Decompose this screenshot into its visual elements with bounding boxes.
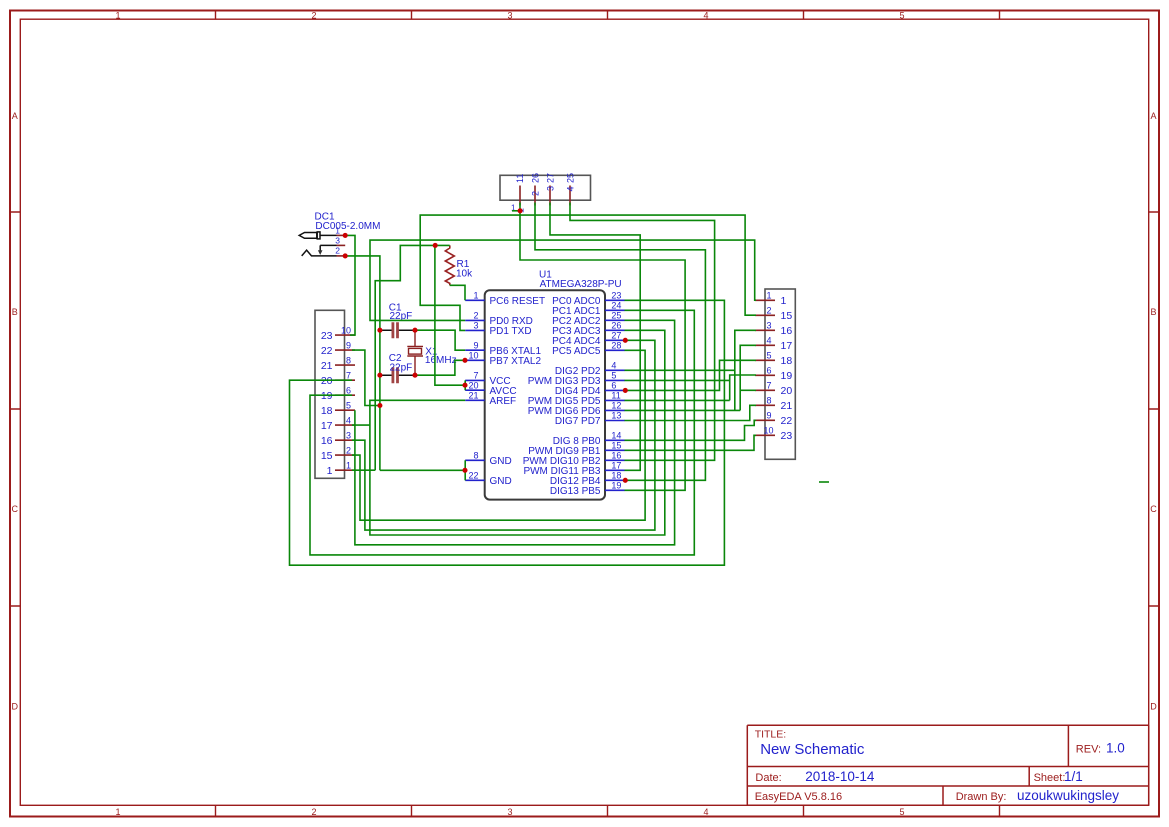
wire stray dash xyxy=(819,481,829,483)
svg-text:PC6 RESET: PC6 RESET xyxy=(490,296,546,307)
wire P2 pin9 to GND rail xyxy=(352,350,380,405)
connector P3 pin names xyxy=(781,295,793,442)
wire P3 pin7 stub xyxy=(740,389,756,391)
junction P1 pin1 xyxy=(518,208,523,213)
connector P2 pins 10..1 xyxy=(335,335,355,470)
capacitor C1 xyxy=(380,322,415,338)
svg-text:1: 1 xyxy=(473,291,478,301)
svg-text:3: 3 xyxy=(545,186,555,191)
svg-text:REV:: REV: xyxy=(1076,744,1101,756)
svg-text:3: 3 xyxy=(507,11,512,21)
svg-text:D: D xyxy=(12,702,19,712)
svg-text:22: 22 xyxy=(468,471,478,481)
svg-text:4: 4 xyxy=(703,807,708,817)
svg-text:1: 1 xyxy=(346,461,351,471)
svg-text:11: 11 xyxy=(515,174,525,183)
svg-text:3: 3 xyxy=(766,321,771,331)
wire RXD: U1 pin2 to P3 pin1 xyxy=(370,240,756,320)
U1 right pin numbers xyxy=(611,291,621,491)
svg-text:DIG7 PD7: DIG7 PD7 xyxy=(555,416,601,427)
svg-text:25: 25 xyxy=(565,173,575,183)
R1 labels xyxy=(456,259,473,280)
junction C1 right xyxy=(412,328,417,333)
wire VCC: R1 top to left rail down to P2 pin1 row xyxy=(375,245,450,470)
connector P1 pin 4 xyxy=(569,186,571,206)
svg-text:New Schematic: New Schematic xyxy=(760,741,865,758)
svg-text:4: 4 xyxy=(611,361,616,371)
svg-text:16: 16 xyxy=(781,325,793,337)
wire P2 pin1 stub xyxy=(352,469,375,471)
svg-text:1: 1 xyxy=(781,295,787,307)
U1 left pin numbers xyxy=(468,291,478,481)
svg-text:23: 23 xyxy=(321,330,333,342)
svg-text:26: 26 xyxy=(530,173,540,183)
svg-text:3: 3 xyxy=(507,807,512,817)
svg-text:18: 18 xyxy=(781,355,793,367)
svg-text:9: 9 xyxy=(473,340,478,350)
svg-text:7: 7 xyxy=(766,381,771,391)
wire GND: DC1 pin2 down left rail xyxy=(345,256,380,470)
svg-text:4: 4 xyxy=(346,416,351,426)
U1 left pins xyxy=(465,300,485,480)
svg-text:B: B xyxy=(12,307,18,317)
wire U1 pin5 horizontal xyxy=(625,379,730,381)
DC1 pin3 arrowhead xyxy=(318,250,323,255)
svg-text:8: 8 xyxy=(346,356,351,366)
crystal X1 xyxy=(407,330,423,375)
svg-text:C: C xyxy=(12,504,19,514)
IC U1 ATMEGA328P-PU body xyxy=(485,290,605,499)
junction U1 pin7/20 xyxy=(462,383,467,388)
svg-text:5: 5 xyxy=(346,401,351,411)
svg-text:17: 17 xyxy=(611,461,621,471)
U1 right pin names xyxy=(523,296,601,497)
node net1 label at P1 pin1 xyxy=(511,203,516,212)
svg-text:6: 6 xyxy=(346,386,351,396)
junction C2 left xyxy=(377,373,382,378)
connector P2 (left header) body xyxy=(315,310,345,478)
svg-text:21: 21 xyxy=(321,360,333,372)
svg-text:15: 15 xyxy=(321,450,333,462)
svg-text:ATMEGA328P-PU: ATMEGA328P-PU xyxy=(540,279,622,290)
svg-text:6: 6 xyxy=(611,381,616,391)
wire P3 pin3 riser xyxy=(735,330,756,410)
wire stub at P1 pin1 junction xyxy=(512,210,520,212)
connector P1 pin 3 xyxy=(549,186,551,206)
svg-text:2: 2 xyxy=(311,807,316,817)
svg-text:GND: GND xyxy=(490,456,512,467)
connector P2 pin names xyxy=(321,330,333,477)
svg-text:22: 22 xyxy=(321,345,333,357)
svg-text:2: 2 xyxy=(311,11,316,21)
wire U1 pin27 to P2 pin3 xyxy=(352,340,655,530)
svg-text:27: 27 xyxy=(611,331,621,341)
svg-text:14: 14 xyxy=(611,431,621,441)
connector P3 (right header) body xyxy=(765,289,795,459)
wire U1 pin11 to P3 pin6 riser xyxy=(625,375,757,400)
svg-text:3: 3 xyxy=(346,431,351,441)
DC jack DC1 symbol xyxy=(299,232,336,256)
svg-text:17: 17 xyxy=(321,420,333,432)
svg-text:18: 18 xyxy=(611,471,621,481)
wire P1 pin1 to U1 pin19 xyxy=(520,203,685,491)
svg-text:B: B xyxy=(1150,307,1156,317)
U1 left pin names xyxy=(490,296,546,487)
svg-text:16: 16 xyxy=(611,451,621,461)
junction GND rail / P2 pin9 xyxy=(377,403,382,408)
wire U1 pin15 to P3 pin10 xyxy=(625,435,757,450)
svg-text:10: 10 xyxy=(468,351,478,361)
DC1 labels xyxy=(315,211,381,232)
svg-text:8: 8 xyxy=(766,396,771,406)
svg-text:28: 28 xyxy=(611,341,621,351)
svg-text:6: 6 xyxy=(766,366,771,376)
wire RESET: R1 bottom to U1 pin1 xyxy=(450,285,465,300)
svg-text:TITLE:: TITLE: xyxy=(755,729,787,741)
C1 labels xyxy=(389,302,412,322)
svg-text:2: 2 xyxy=(530,191,540,196)
svg-text:5: 5 xyxy=(766,351,771,361)
svg-text:22: 22 xyxy=(781,415,793,427)
junction U1 GND xyxy=(462,468,467,473)
junction DC1 pin2 xyxy=(343,253,348,258)
wire P1 pin4 to U1 pin16 xyxy=(570,203,715,461)
svg-text:15: 15 xyxy=(781,310,793,322)
svg-text:D: D xyxy=(1150,702,1157,712)
connector P3 pins 1..10 xyxy=(755,300,775,435)
svg-text:PB7 XTAL2: PB7 XTAL2 xyxy=(490,356,542,367)
svg-text:1: 1 xyxy=(327,465,333,477)
wire GND rail to U1 GND junction xyxy=(380,469,465,471)
svg-text:17: 17 xyxy=(781,340,793,352)
svg-text:18: 18 xyxy=(321,405,333,417)
svg-text:22pF: 22pF xyxy=(390,363,413,374)
wire U1 pin25 to P2 pin5 xyxy=(355,320,675,545)
junction DC1 pin1 xyxy=(343,233,348,238)
junction U1 pin27 xyxy=(623,338,628,343)
junction C1 left xyxy=(377,328,382,333)
DC1 pin numbers xyxy=(335,225,340,255)
svg-text:19: 19 xyxy=(611,481,621,491)
svg-text:5: 5 xyxy=(899,11,904,21)
svg-text:uzoukwukingsley: uzoukwukingsley xyxy=(1017,788,1119,803)
wire P3 pin4 riser xyxy=(740,345,756,410)
svg-text:9: 9 xyxy=(766,411,771,421)
svg-text:1: 1 xyxy=(335,225,340,235)
svg-text:1/1: 1/1 xyxy=(1064,769,1083,784)
svg-text:2: 2 xyxy=(473,311,478,321)
svg-text:3: 3 xyxy=(473,321,478,331)
svg-text:5: 5 xyxy=(611,371,616,381)
svg-text:1: 1 xyxy=(115,807,120,817)
junction U1 pin6 xyxy=(623,388,628,393)
wire DC1 pin1 to P2 pin10 xyxy=(345,235,355,335)
svg-text:1: 1 xyxy=(766,291,771,301)
connector P1 pin labels xyxy=(515,173,575,213)
wire U1 pin24 to P2 pin6 xyxy=(310,310,694,555)
connector P1 (top header) body xyxy=(500,175,591,200)
connector P3 pin numbers xyxy=(763,291,773,436)
svg-text:A: A xyxy=(1150,111,1156,121)
svg-text:11: 11 xyxy=(611,391,620,401)
resistor R1 xyxy=(445,245,454,285)
svg-text:23: 23 xyxy=(781,430,793,442)
svg-text:20: 20 xyxy=(781,385,793,397)
svg-text:2: 2 xyxy=(346,446,351,456)
wire P2 pin4 stub to AREF rail xyxy=(352,424,370,426)
svg-text:1.0: 1.0 xyxy=(1106,741,1125,756)
svg-text:26: 26 xyxy=(611,321,621,331)
svg-text:27: 27 xyxy=(545,173,555,183)
svg-text:2: 2 xyxy=(335,246,340,256)
svg-text:4: 4 xyxy=(766,336,771,346)
svg-text:7: 7 xyxy=(473,371,478,381)
svg-text:19: 19 xyxy=(781,370,793,382)
svg-text:5: 5 xyxy=(899,807,904,817)
svg-text:10: 10 xyxy=(763,426,773,436)
svg-text:4: 4 xyxy=(565,186,575,191)
wire U1 pin4 horizontal xyxy=(625,369,735,371)
svg-text:20: 20 xyxy=(468,380,478,390)
connector P2 pin numbers xyxy=(341,326,351,471)
svg-text:DC005-2.0MM: DC005-2.0MM xyxy=(315,221,380,232)
svg-text:23: 23 xyxy=(611,291,621,301)
svg-text:12: 12 xyxy=(611,401,621,411)
wire P1 pin3 to U1 pin17 xyxy=(550,203,640,471)
svg-text:Sheet:: Sheet: xyxy=(1034,772,1066,784)
wire U1 pin12 horizontal xyxy=(625,409,741,411)
svg-text:EasyEDA V5.8.16: EasyEDA V5.8.16 xyxy=(755,791,842,803)
svg-text:2018-10-14: 2018-10-14 xyxy=(805,769,875,784)
wire TXD: U1 pin3 to P3 pin2 xyxy=(420,215,756,330)
C2 labels xyxy=(389,353,412,374)
connector P1 pin 1 xyxy=(519,186,521,206)
X1 labels xyxy=(425,347,457,366)
connector P1 pin 2 xyxy=(534,186,536,206)
wire U1 pin7-pin20 stub xyxy=(464,380,466,390)
svg-text:4: 4 xyxy=(703,11,708,21)
capacitor C2 xyxy=(380,367,415,383)
svg-text:25: 25 xyxy=(611,311,621,321)
svg-text:AREF: AREF xyxy=(490,396,517,407)
svg-text:15: 15 xyxy=(611,441,621,451)
U1 labels xyxy=(539,269,622,290)
wire GND stub U1 pin8-pin22 xyxy=(464,460,466,480)
wire XTAL1: C1 right to U1 pin9 xyxy=(415,330,465,350)
wire AVCC: junction to U1 pin20 xyxy=(435,245,465,385)
svg-text:C: C xyxy=(1150,504,1157,514)
svg-text:10: 10 xyxy=(341,326,351,336)
junction R1 top / AVCC xyxy=(433,243,438,248)
junction C2 right xyxy=(412,373,417,378)
svg-text:PC5 ADC5: PC5 ADC5 xyxy=(552,346,601,357)
DC1 pin stubs xyxy=(337,235,346,256)
svg-text:9: 9 xyxy=(346,341,351,351)
svg-text:21: 21 xyxy=(781,400,793,412)
svg-text:16: 16 xyxy=(321,435,333,447)
svg-text:Drawn By:: Drawn By: xyxy=(956,791,1007,803)
wire U1 pin14 to P3 pin9 xyxy=(625,420,757,440)
svg-text:A: A xyxy=(12,111,18,121)
wire U1 pin6 to P3 pin5 xyxy=(625,360,756,390)
svg-text:PD1 TXD: PD1 TXD xyxy=(490,326,532,337)
svg-text:13: 13 xyxy=(611,411,621,421)
junction U1 pin18 xyxy=(623,478,628,483)
wire P1 pin2 to U1 pin18 xyxy=(535,203,705,481)
svg-text:DIG13 PB5: DIG13 PB5 xyxy=(550,486,601,497)
svg-text:21: 21 xyxy=(468,391,478,401)
svg-text:GND: GND xyxy=(490,476,512,487)
wire AREF: U1 pin21 left rail bottom bus to U1 pin26 xyxy=(370,330,665,535)
svg-text:16MHz: 16MHz xyxy=(425,355,457,366)
svg-text:1: 1 xyxy=(115,11,120,21)
svg-text:7: 7 xyxy=(346,371,351,381)
wire U1 pin23 to P2 pin7 xyxy=(290,300,725,565)
wire XTAL2: C2/X1 to U1 pin10 xyxy=(415,360,465,375)
junction U1 pin10 xyxy=(462,358,467,363)
svg-text:3: 3 xyxy=(335,236,340,246)
svg-text:Date:: Date: xyxy=(755,772,781,784)
wire U1 pin28 to P2 pin2 xyxy=(352,350,645,520)
wire U1 pin13 to P3 pin8 xyxy=(625,405,757,420)
U1 right pins xyxy=(605,300,625,490)
svg-text:2: 2 xyxy=(766,306,771,316)
svg-text:10k: 10k xyxy=(456,269,473,280)
svg-text:8: 8 xyxy=(473,451,478,461)
svg-text:24: 24 xyxy=(611,301,621,311)
